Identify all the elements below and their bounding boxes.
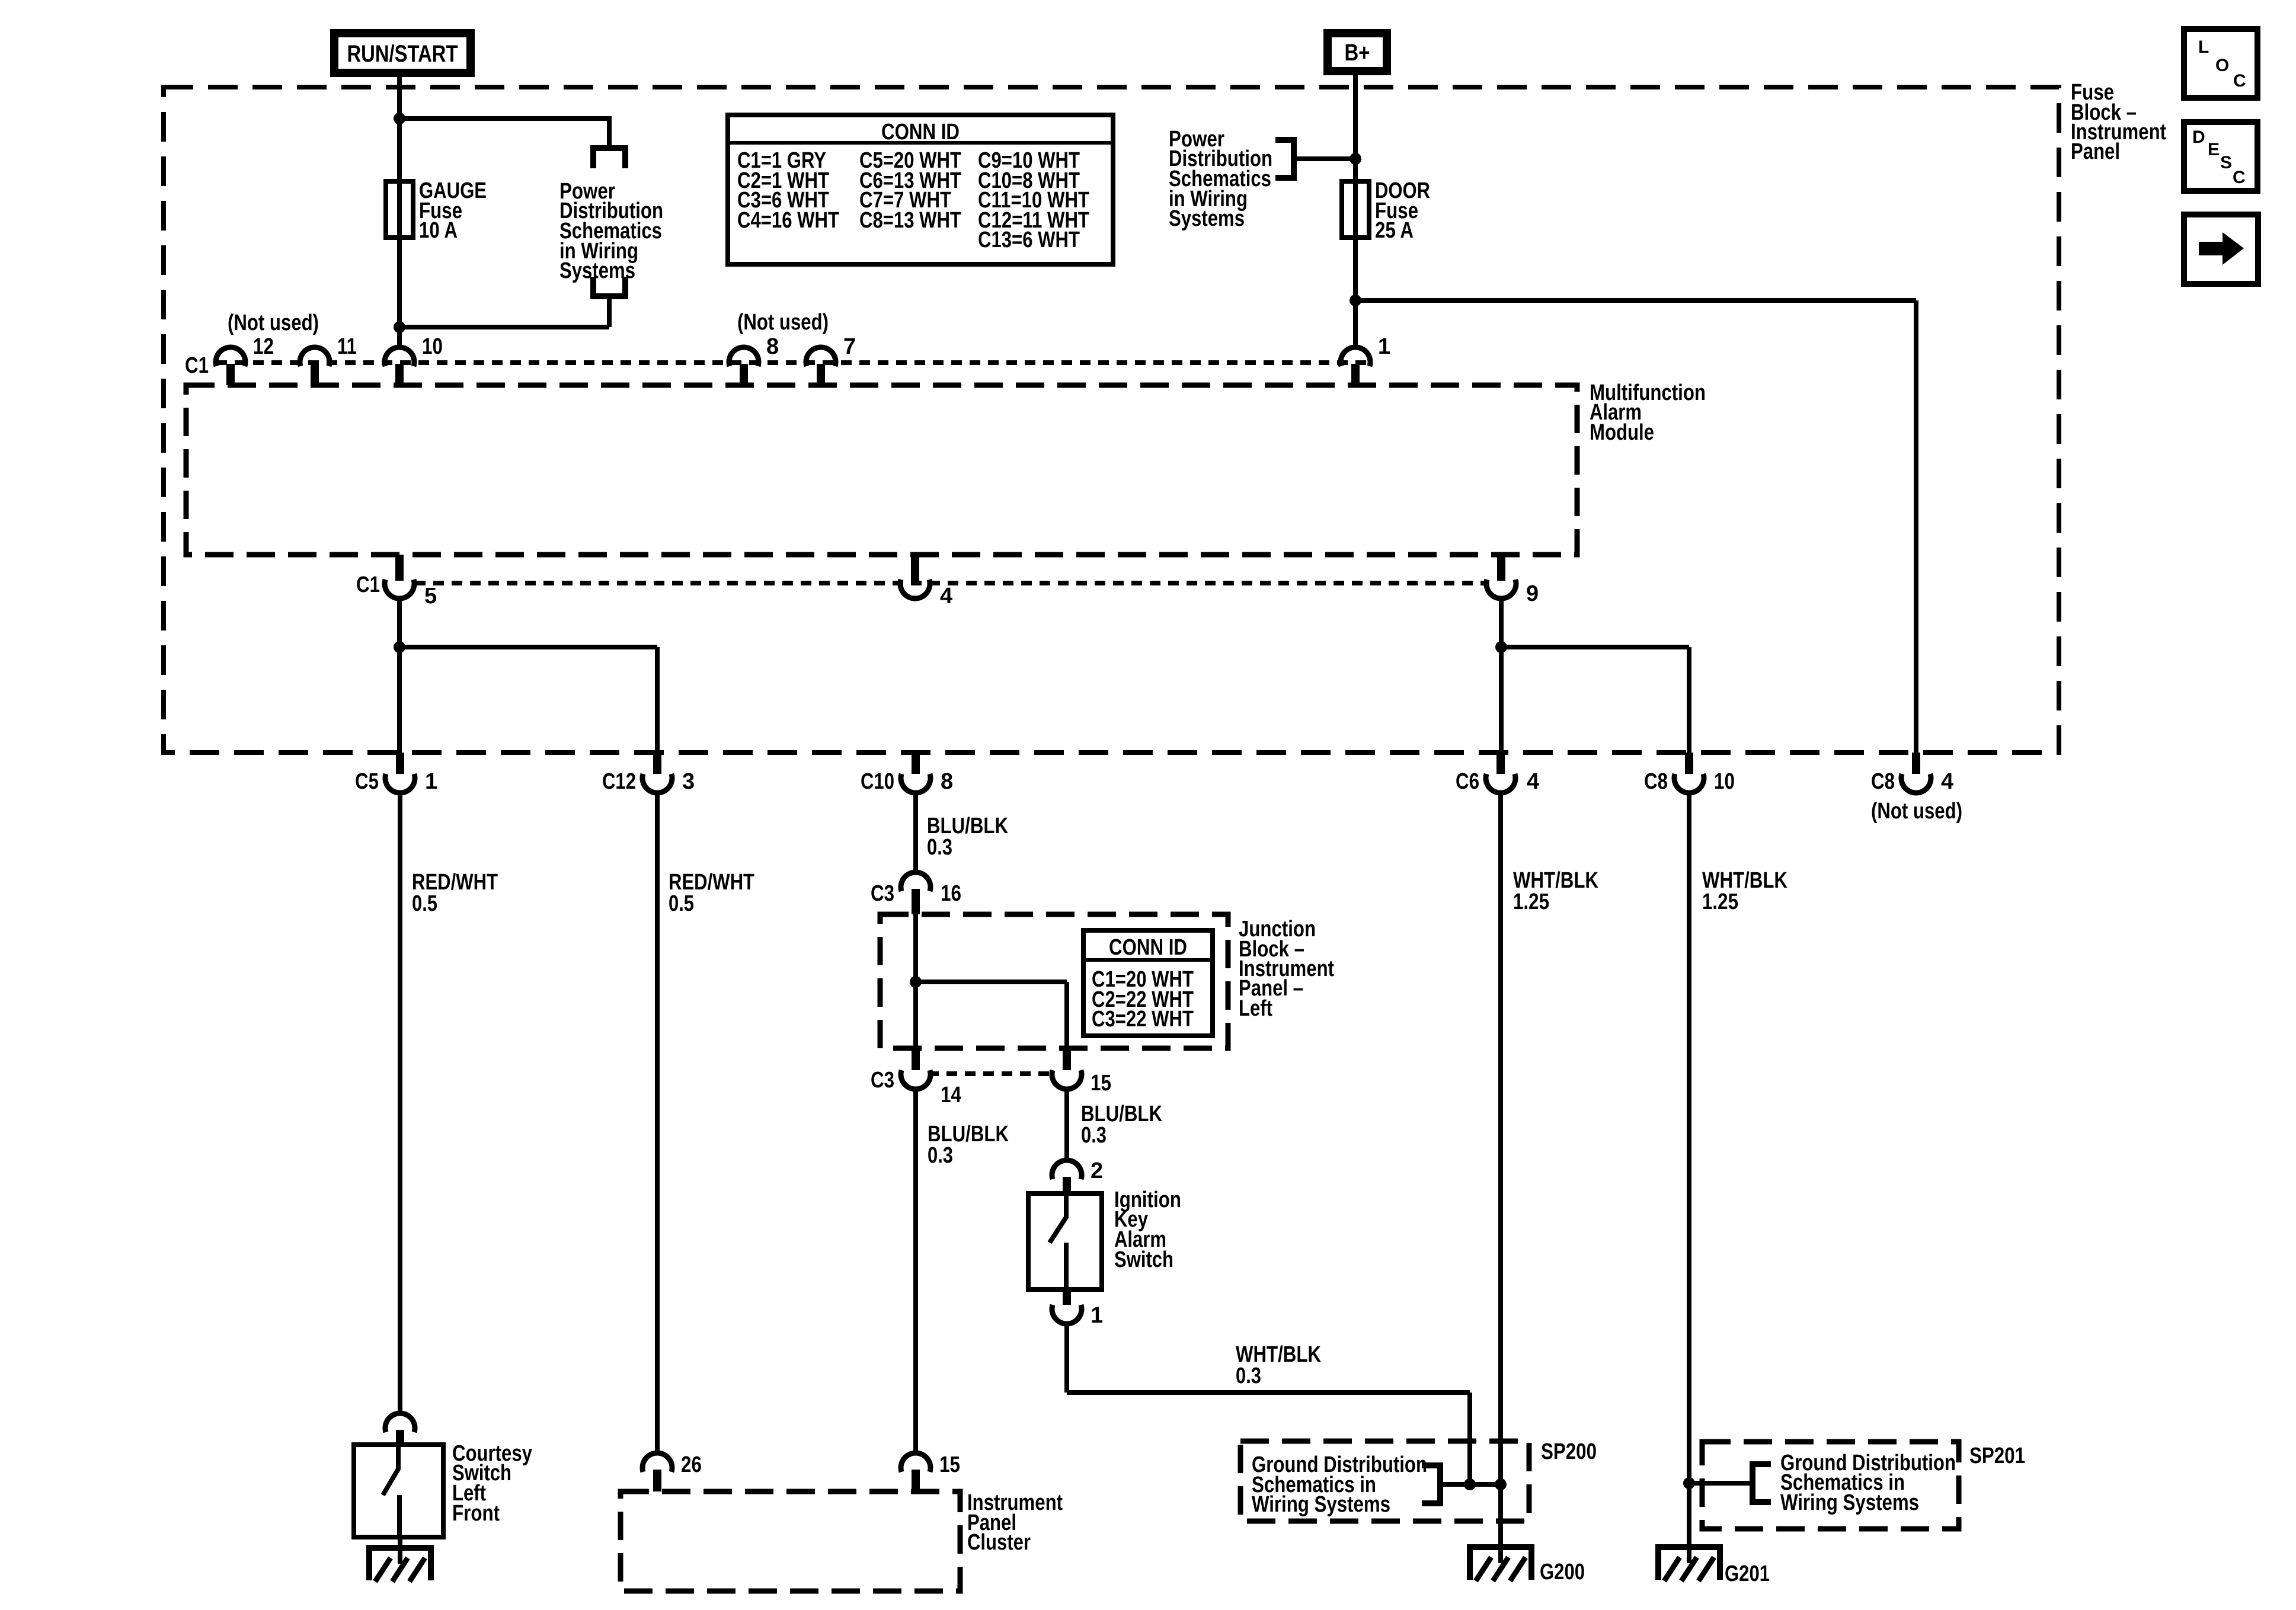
svg-text:SP201: SP201 bbox=[1969, 1443, 2025, 1468]
svg-text:5: 5 bbox=[424, 584, 437, 609]
svg-text:0.5: 0.5 bbox=[669, 891, 694, 916]
LOC box bbox=[2184, 29, 2257, 98]
svg-text:0.3: 0.3 bbox=[928, 1143, 953, 1168]
svg-text:Wiring Systems: Wiring Systems bbox=[1252, 1492, 1390, 1517]
courtesy switch left front S2 bbox=[354, 1445, 443, 1537]
svg-text:9: 9 bbox=[1526, 581, 1539, 606]
svg-text:C8: C8 bbox=[1644, 769, 1668, 794]
svg-text:SP200: SP200 bbox=[1541, 1439, 1597, 1464]
node fuse feed junction bbox=[394, 113, 405, 124]
pin 7 of C1 (not used) bbox=[806, 347, 836, 366]
pin 2 of ignition key alarm switch bbox=[1052, 1160, 1082, 1179]
node pin5 branch junction bbox=[394, 641, 405, 653]
svg-text:16: 16 bbox=[941, 881, 961, 906]
pin 26 of instrument panel cluster bbox=[642, 1453, 672, 1472]
wire B+ feed bbox=[1353, 75, 1358, 349]
connector line C1 top row (dotted) bbox=[216, 360, 1370, 365]
connector C12 pin 3 bbox=[653, 753, 661, 774]
connector C3 pin 16 bbox=[901, 872, 930, 891]
ignition key alarm switch S1 bbox=[1028, 1193, 1102, 1289]
wire bracket to B+ feed bbox=[1294, 156, 1355, 161]
svg-text:C5: C5 bbox=[355, 769, 379, 794]
wire BLU/BLK 0.3 (C10-8 to C3-16) bbox=[913, 791, 918, 874]
svg-text:C3: C3 bbox=[871, 881, 894, 906]
svg-text:Front: Front bbox=[452, 1501, 500, 1526]
wire pin 5 to C5 and C12 bbox=[397, 597, 402, 753]
svg-text:CONN ID: CONN ID bbox=[881, 120, 960, 145]
svg-text:8: 8 bbox=[766, 334, 779, 359]
svg-text:C10: C10 bbox=[861, 769, 894, 794]
svg-text:Left: Left bbox=[1239, 996, 1272, 1021]
DESC box bbox=[2184, 122, 2257, 191]
wire WHT/BLK 1.25 (C8-10 to G201) bbox=[1687, 791, 1691, 1547]
power feed B+ bbox=[1323, 29, 1391, 75]
wire RED/WHT 0.5 (C12-3 to cluster pin 26) bbox=[655, 791, 660, 1455]
ground distribution box SP201 (dashed) bbox=[1702, 1442, 1959, 1529]
svg-text:11: 11 bbox=[337, 334, 357, 359]
node B+ branch junction bbox=[1350, 153, 1361, 165]
svg-text:S: S bbox=[2220, 153, 2232, 172]
svg-text:0.5: 0.5 bbox=[412, 891, 437, 916]
svg-text:10 A: 10 A bbox=[419, 218, 458, 243]
wire BLU/BLK 0.3 (C3-14 to cluster pin 15) bbox=[913, 1087, 918, 1455]
wire branch to C12 pin 3 bbox=[399, 645, 657, 649]
ground G200 bbox=[1467, 1544, 1534, 1550]
connector C3 pin 15 bbox=[1063, 1048, 1071, 1070]
svg-text:Systems: Systems bbox=[559, 258, 635, 283]
connector C6 pin 4 bbox=[1496, 753, 1505, 774]
svg-text:C: C bbox=[2233, 71, 2246, 91]
junction block - instrument panel left (dashed box) bbox=[880, 914, 1228, 1048]
svg-text:14: 14 bbox=[941, 1083, 961, 1108]
svg-text:C4=16 WHT: C4=16 WHT bbox=[737, 208, 839, 233]
pin 12 of C1 (not used) bbox=[216, 347, 245, 366]
svg-text:Module: Module bbox=[1590, 420, 1654, 445]
wire inside junction block bbox=[913, 902, 918, 1049]
wire DOOR fuse output to C8 pin 4 bbox=[1355, 298, 1916, 303]
svg-text:0.3: 0.3 bbox=[1236, 1363, 1261, 1388]
svg-text:Panel: Panel bbox=[2071, 139, 2120, 164]
wire pin 9 to C6 and C8 bbox=[1499, 597, 1504, 753]
instrument panel cluster (dashed box) bbox=[621, 1491, 960, 1591]
svg-text:1: 1 bbox=[425, 769, 437, 794]
multifunction alarm module (dashed box) bbox=[186, 385, 1577, 555]
svg-text:RUN/START: RUN/START bbox=[347, 41, 458, 67]
pin 15 of instrument panel cluster bbox=[901, 1453, 930, 1472]
connector C8 pin 4 (not used) bbox=[1912, 753, 1920, 774]
svg-text:0.3: 0.3 bbox=[1081, 1123, 1107, 1148]
connector line C1 bottom row (dotted) bbox=[415, 581, 1487, 585]
wire from reference back to fuse output bbox=[607, 296, 612, 327]
connector C8 pin 10 bbox=[1685, 753, 1693, 774]
svg-text:Switch: Switch bbox=[1114, 1247, 1173, 1272]
connector C5 pin 1 bbox=[396, 753, 404, 774]
wire BLU/BLK 0.3 (C3-15 to ignition switch) bbox=[1064, 1087, 1069, 1162]
wire RED/WHT 0.5 (C5-1 to courtesy switch) bbox=[398, 791, 402, 1415]
svg-text:C13=6 WHT: C13=6 WHT bbox=[978, 228, 1080, 252]
svg-text:C: C bbox=[2233, 168, 2246, 187]
svg-text:(Not used): (Not used) bbox=[1871, 799, 1962, 824]
fuse block - instrument panel (dashed boundary) bbox=[164, 87, 2059, 753]
pin 9 of C1 bbox=[1497, 555, 1505, 581]
svg-text:0.3: 0.3 bbox=[927, 835, 952, 860]
svg-text:1: 1 bbox=[1091, 1303, 1103, 1328]
svg-text:7: 7 bbox=[843, 334, 856, 359]
arrow box bbox=[2184, 215, 2258, 284]
svg-text:4: 4 bbox=[940, 584, 952, 609]
node fuse output junction bbox=[394, 321, 405, 333]
reference bracket (power distribution, top) bbox=[593, 148, 625, 168]
pin of courtesy switch bbox=[385, 1413, 415, 1432]
fuse GAUGE 10 A bbox=[386, 181, 413, 238]
svg-text:O: O bbox=[2215, 56, 2229, 75]
wire WHT/BLK 0.3 (ignition switch to SP200) bbox=[1064, 1322, 1069, 1393]
svg-text:C1: C1 bbox=[185, 353, 209, 378]
node splice (ignition ground joins) bbox=[1464, 1478, 1476, 1490]
node splice SP200 bbox=[1495, 1478, 1507, 1490]
table CONN ID (fuse block) bbox=[728, 115, 1113, 264]
svg-text:C3: C3 bbox=[871, 1068, 894, 1093]
wire RUN/START feed bbox=[397, 77, 402, 349]
table CONN ID (junction block) bbox=[1083, 930, 1213, 1036]
reference bracket (power distribution, B+ side) bbox=[1275, 140, 1294, 178]
svg-text:10: 10 bbox=[422, 334, 443, 359]
connector C10 pin 8 bbox=[912, 753, 920, 774]
svg-text:Systems: Systems bbox=[1169, 206, 1245, 231]
wire branch to C8 pin 10 bbox=[1501, 645, 1689, 649]
svg-text:2: 2 bbox=[1091, 1158, 1103, 1183]
node DOOR fuse output junction bbox=[1350, 295, 1361, 306]
svg-text:C8: C8 bbox=[1871, 769, 1895, 794]
ground distribution box SP200 (dashed) bbox=[1240, 1441, 1529, 1521]
power feed RUN/START bbox=[330, 29, 475, 77]
svg-text:CONN ID: CONN ID bbox=[1109, 935, 1187, 960]
ground G201 bbox=[1655, 1544, 1723, 1550]
svg-text:1: 1 bbox=[1378, 334, 1390, 359]
wire courtesy switch to ground bbox=[398, 1537, 402, 1549]
svg-text:4: 4 bbox=[1941, 769, 1953, 794]
reference bracket (ground distribution SP200) bbox=[1422, 1465, 1440, 1503]
svg-text:25 A: 25 A bbox=[1375, 218, 1414, 243]
wire splice to bracket SP201 bbox=[1689, 1481, 1753, 1486]
svg-text:C12: C12 bbox=[602, 769, 636, 794]
svg-text:8: 8 bbox=[941, 769, 953, 794]
svg-text:C3=22 WHT: C3=22 WHT bbox=[1092, 1007, 1194, 1032]
svg-text:B+: B+ bbox=[1345, 40, 1370, 66]
connector line C3 (dotted) bbox=[928, 1071, 1053, 1076]
svg-text:Cluster: Cluster bbox=[967, 1530, 1031, 1555]
svg-text:E: E bbox=[2208, 140, 2220, 159]
reference bracket (power distribution, bottom) bbox=[593, 277, 625, 296]
node junction block splice bbox=[910, 976, 922, 988]
svg-text:D: D bbox=[2192, 127, 2205, 147]
svg-text:Wiring Systems: Wiring Systems bbox=[1780, 1490, 1919, 1515]
svg-text:G201: G201 bbox=[1725, 1561, 1770, 1586]
svg-text:10: 10 bbox=[1714, 769, 1735, 794]
reference bracket (ground distribution SP201) bbox=[1753, 1464, 1771, 1502]
svg-text:C8=13 WHT: C8=13 WHT bbox=[859, 208, 961, 233]
wire WHT/BLK 1.25 (C6-4 to G200) bbox=[1498, 791, 1503, 1547]
ground (courtesy switch) bbox=[366, 1545, 434, 1551]
svg-text:4: 4 bbox=[1527, 769, 1539, 794]
pin 8 of C1 (not used) bbox=[729, 347, 759, 366]
pin 1 of ignition key alarm switch bbox=[1063, 1289, 1071, 1305]
wire bracket to splice SP200 bbox=[1440, 1482, 1470, 1487]
svg-text:15: 15 bbox=[939, 1452, 960, 1477]
svg-text:3: 3 bbox=[682, 769, 695, 794]
svg-text:1.25: 1.25 bbox=[1702, 889, 1738, 914]
connector C3 pin 14 bbox=[912, 1048, 920, 1070]
svg-text:L: L bbox=[2198, 37, 2209, 57]
wire junction block branch to pin 15 bbox=[916, 980, 1067, 984]
svg-text:(Not used): (Not used) bbox=[228, 311, 319, 335]
node pin9 branch junction bbox=[1495, 641, 1507, 653]
fuse DOOR 25 A bbox=[1342, 181, 1369, 238]
node splice SP201 bbox=[1683, 1477, 1695, 1489]
pin 5 of C1 bbox=[395, 555, 404, 581]
svg-text:15: 15 bbox=[1091, 1071, 1111, 1096]
svg-text:C6: C6 bbox=[1456, 769, 1479, 794]
pin 10 of C1 bbox=[385, 347, 414, 366]
svg-text:C1: C1 bbox=[356, 572, 380, 597]
svg-text:G200: G200 bbox=[1540, 1560, 1585, 1585]
svg-text:(Not used): (Not used) bbox=[737, 310, 829, 335]
svg-text:12: 12 bbox=[253, 334, 274, 359]
wire branch to power distribution reference bbox=[399, 116, 609, 121]
svg-text:1.25: 1.25 bbox=[1513, 889, 1549, 914]
svg-text:26: 26 bbox=[681, 1452, 702, 1477]
pin 4 of C1 bbox=[911, 555, 919, 581]
pin 11 of C1 (not used) bbox=[300, 347, 330, 366]
pin 1 of C1 bbox=[1341, 347, 1370, 366]
